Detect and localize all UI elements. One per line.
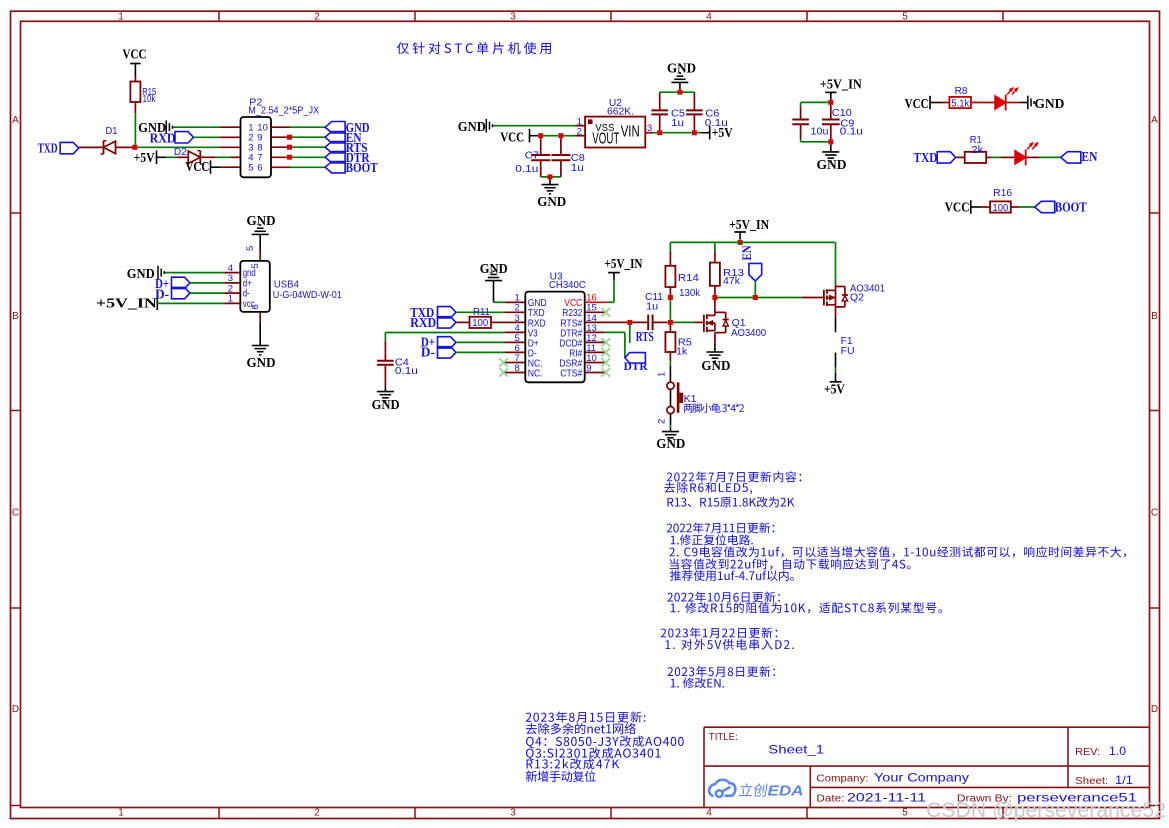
svg-text:C7: C7 [525, 151, 539, 162]
wire +5V to D2 [157, 156, 166, 158]
svg-text:GND: GND [127, 267, 155, 282]
no-connect x U3 pin7 [505, 362, 525, 364]
svg-text:A: A [1151, 115, 1158, 126]
power flag +5V right of C6 [709, 126, 711, 139]
svg-text:+5V_IN: +5V_IN [605, 257, 643, 272]
svg-text:R8: R8 [955, 86, 968, 97]
P2 right pins [271, 126, 290, 128]
svg-text:C: C [1151, 508, 1158, 519]
svg-text:REV:: REV: [1075, 747, 1100, 758]
svg-text:0.1u: 0.1u [395, 366, 418, 377]
junction C5/C6 top ground [677, 90, 682, 95]
port BOOT flag right [1035, 201, 1055, 212]
note text 仅针对STC单片机使用 [397, 42, 551, 54]
svg-text:Sheet_1: Sheet_1 [768, 743, 824, 757]
junction C9 bottom [828, 139, 833, 144]
wire GND to USB4 pin5 [259, 234, 261, 251]
svg-text:1u: 1u [646, 301, 658, 312]
svg-text:TXD: TXD [914, 151, 938, 166]
wire K1 pin2 to ground [670, 414, 672, 425]
wire C7-C8 bottoms [541, 176, 561, 178]
wire D1 to junction [116, 146, 133, 148]
junction C11/R5/Q1 node [668, 320, 673, 325]
title block frame [704, 726, 1150, 728]
transistor Q2 AO3401 PMOS [835, 242, 837, 284]
svg-text:K1: K1 [684, 394, 697, 405]
resistor R8 [949, 97, 971, 108]
svg-text:VOUT: VOUT [592, 130, 619, 147]
svg-text:D1: D1 [106, 126, 118, 137]
svg-text:CSDN @perseverance52: CSDN @perseverance52 [926, 799, 1166, 822]
svg-text:1: 1 [118, 11, 124, 22]
svg-text:Company:: Company: [816, 773, 868, 784]
no-connect x U3 pin8 [505, 372, 525, 374]
svg-text:2: 2 [314, 11, 320, 22]
svg-text:GND: GND [247, 356, 276, 371]
svg-text:AO3400: AO3400 [731, 328, 766, 339]
junction C7/C8 ground [548, 174, 553, 179]
svg-text:1/1: 1/1 [1115, 773, 1133, 787]
wire D+ to pin3 [190, 282, 224, 284]
revision note 2023-5-8 [668, 666, 776, 677]
svg-text:Date:: Date: [816, 794, 844, 805]
wire USB4 pin6 to ground [259, 312, 261, 322]
svg-text:B: B [12, 311, 19, 322]
svg-text:VCC: VCC [123, 48, 147, 63]
svg-text:+5V_IN: +5V_IN [820, 78, 862, 93]
svg-text:EN: EN [1081, 150, 1097, 165]
wire junction to P2 pin3 [137, 146, 220, 148]
junction C5 bottom [657, 130, 662, 135]
junction C7 top [538, 133, 543, 138]
svg-text:CH340C: CH340C [549, 280, 586, 291]
wire GND to U3 pin1 [493, 281, 495, 303]
wire VCC to U2 pin2 [530, 135, 539, 137]
svg-text:Your Company: Your Company [874, 770, 969, 784]
wire R8 to LED1 [971, 102, 995, 104]
svg-text:D: D [12, 704, 19, 715]
capacitor C11 [632, 321, 648, 323]
wire Q1 source to ground [714, 333, 716, 343]
capacitor C10 [800, 107, 802, 120]
svg-text:0.1u: 0.1u [840, 127, 863, 138]
wire RXD to R11 [456, 321, 470, 323]
svg-text:1u: 1u [571, 163, 584, 174]
svg-text:6: 6 [257, 163, 262, 174]
capacitor C6 [693, 114, 695, 130]
svg-text:2: 2 [577, 127, 582, 138]
wire R5 to K1 [669, 352, 671, 361]
resistor R1 [965, 152, 987, 163]
svg-text:C10: C10 [832, 108, 852, 119]
svg-text:4: 4 [706, 808, 712, 819]
wire D2 to P2 pin4 [200, 156, 215, 158]
capacitor C5 [659, 114, 661, 130]
svg-text:5: 5 [902, 808, 908, 819]
wire gate rail to Q2 [717, 297, 802, 299]
svg-text:VIN: VIN [621, 123, 640, 140]
power flag +5V below F1 [830, 381, 842, 383]
capacitor C7 [540, 138, 542, 155]
wire to C10 top [801, 101, 829, 103]
svg-text:100: 100 [472, 318, 488, 329]
svg-text:1: 1 [118, 808, 124, 819]
port BOOT flag (P2 pin6) [325, 162, 345, 173]
svg-text:GND: GND [458, 120, 486, 135]
svg-text:DTR: DTR [624, 361, 649, 373]
wire TXD to U3 pin2 [456, 311, 505, 313]
svg-text:Sheet:: Sheet: [1075, 776, 1108, 787]
svg-text:M_2.54_2*5P_JX: M_2.54_2*5P_JX [248, 106, 319, 117]
junction C9 top [828, 100, 833, 105]
junction P2 pin8 [287, 145, 292, 150]
svg-text:R14: R14 [678, 273, 699, 284]
wire TXD to D1 [79, 146, 104, 148]
svg-text:TITLE:: TITLE: [709, 732, 738, 743]
wire R15 bottom to junction [134, 102, 136, 113]
port DTR flag at U3 [625, 353, 646, 363]
resistor R5 [669, 325, 671, 332]
svg-text:130k: 130k [679, 288, 701, 299]
wire VCC to R16 [971, 206, 981, 208]
svg-text:100: 100 [992, 203, 1008, 214]
wire VCC to P2 pin5 [211, 166, 221, 168]
svg-text:USB4: USB4 [274, 279, 299, 290]
capacitor C8 [560, 138, 562, 155]
svg-text:NC.: NC. [528, 368, 543, 379]
net flag RTS stub [629, 325, 631, 343]
svg-text:B: B [1151, 311, 1158, 322]
junction node TXD/R15/P2 [132, 145, 137, 150]
wire GND to U2 pin1 [493, 125, 575, 127]
port EN flag (P2 pin9) [325, 132, 345, 143]
junction EN node [753, 295, 758, 300]
ground below K1 [662, 431, 679, 433]
wire +5V_IN rail [670, 241, 835, 243]
wire GND to pin4 [165, 272, 225, 274]
junction R13/Q1 drain [712, 295, 717, 300]
switch K1 两脚小龟 [667, 382, 674, 389]
junction RTS node [627, 320, 632, 325]
wire U3 pin13 DTR# to DTR flag [604, 331, 625, 333]
ground below Q1 [706, 351, 723, 353]
wire R1 to LED2 [986, 156, 991, 158]
fuse F1 [835, 308, 837, 317]
svg-text:10k: 10k [143, 94, 157, 105]
resistor R11 [470, 317, 492, 328]
svg-text:GND: GND [667, 62, 696, 77]
svg-text:BOOT: BOOT [346, 161, 379, 176]
wire +5V_IN to pin1 [157, 302, 224, 304]
wire EN to gate rail [754, 281, 756, 295]
U3 left pin stubs [505, 301, 525, 303]
svg-text:D-: D- [421, 346, 435, 361]
svg-text:2: 2 [657, 419, 668, 424]
svg-text:D2: D2 [174, 147, 187, 158]
wire R16 to BOOT [1011, 206, 1019, 208]
svg-text:BOOT: BOOT [1055, 201, 1088, 216]
svg-text:U-G-04WD-W-01: U-G-04WD-W-01 [273, 290, 342, 301]
svg-text:CTS#: CTS# [560, 368, 582, 379]
wire rail to R14 [669, 242, 671, 251]
revision note 2022-7-11 [667, 522, 775, 533]
port GND flag (P2 pin10) [325, 122, 345, 133]
resistor R14 [665, 266, 675, 287]
svg-text:GND: GND [701, 359, 730, 374]
revision note 2022-10-6 [667, 592, 780, 603]
wire R15 top pin [134, 77, 136, 82]
wire V3 net to C4 [385, 332, 505, 334]
svg-text:VCC: VCC [185, 160, 209, 175]
svg-text:1u: 1u [671, 118, 684, 129]
capacitor C4 [384, 342, 386, 361]
svg-text:10u: 10u [811, 127, 829, 138]
port EN flag (down) [749, 263, 762, 281]
svg-text:5.1k: 5.1k [951, 98, 970, 109]
svg-text:VCC: VCC [500, 130, 524, 145]
svg-text:6: 6 [250, 304, 261, 309]
svg-text:1: 1 [657, 372, 668, 377]
svg-text:5: 5 [248, 163, 253, 174]
wire to Q1 gate [673, 321, 695, 323]
connector USB4 U-G-04WD-W-01 [240, 261, 269, 312]
revision note 2022-7-7 [667, 471, 802, 482]
no-connect x U3 pins 15 12 11 10 9 [602, 308, 611, 317]
junction +5V_IN rail [738, 240, 743, 245]
svg-text:2: 2 [314, 808, 320, 819]
frame zone ticks [218, 11, 220, 21]
port RTS flag (P2 pin8) [325, 142, 345, 153]
wire RXD to P2 pin2 [194, 136, 221, 138]
svg-text:VCC: VCC [905, 97, 929, 112]
ground above C5/C6 [679, 82, 681, 89]
ground below C7/C8 [549, 179, 551, 184]
wire D- to pin2 [190, 292, 224, 294]
svg-text:5: 5 [250, 263, 261, 268]
svg-text:+5V: +5V [134, 151, 155, 166]
junction below R14 [668, 295, 673, 300]
port DTR flag (P2 pin7) [325, 152, 345, 163]
diode D1 [104, 141, 116, 153]
svg-text:2021-11-11: 2021-11-11 [847, 791, 926, 805]
svg-text:+5V: +5V [824, 383, 845, 398]
junction P2 pin9 [287, 135, 292, 140]
svg-text:RXD: RXD [410, 316, 436, 331]
LED D3 power [995, 96, 1006, 109]
svg-text:GND: GND [656, 437, 685, 452]
LED D4 TXD [1015, 151, 1026, 164]
svg-text:+5V_IN: +5V_IN [729, 218, 769, 233]
junction C8 top [558, 133, 563, 138]
wire TXD to R1 [956, 156, 965, 158]
svg-text:2k: 2k [971, 145, 984, 156]
svg-text:+5V_IN: +5V_IN [96, 297, 157, 312]
svg-text:5: 5 [902, 11, 908, 22]
wire LED2 to EN [1026, 156, 1039, 158]
svg-text:EDA: EDA [768, 783, 804, 800]
svg-text:0.1u: 0.1u [515, 164, 538, 175]
svg-text:R11: R11 [473, 307, 490, 318]
svg-text:GND: GND [372, 398, 400, 413]
resistor R16 [990, 201, 1011, 212]
ground below C9 [830, 144, 832, 152]
svg-text:Q2: Q2 [850, 293, 864, 304]
svg-text:EN: EN [739, 245, 754, 261]
U3 right pin stubs [585, 311, 605, 313]
revision note 2023-8-15 [526, 711, 646, 722]
svg-text:GND: GND [1034, 97, 1064, 112]
svg-text:VCC: VCC [945, 200, 970, 215]
svg-text:662K.: 662K. [607, 106, 634, 117]
wire U3 pin16 VCC to +5V_IN [585, 301, 607, 303]
svg-text:1.0: 1.0 [1109, 744, 1126, 758]
wire D+ to U3 pin5 [456, 341, 505, 343]
wire R11 to U3 pin3 [491, 321, 505, 323]
svg-text:GND: GND [247, 214, 276, 229]
port EN flag right [1061, 152, 1081, 163]
wire rail to R13 [714, 242, 716, 251]
logo 立创EDA [709, 780, 735, 797]
wire C10 bottom [800, 139, 802, 142]
wire U3 pin14 RTS# to junction [604, 321, 627, 323]
svg-text:C: C [12, 508, 19, 519]
ground below C4 [384, 386, 386, 392]
svg-text:0.1u: 0.1u [705, 118, 728, 129]
svg-text:GND: GND [817, 158, 847, 173]
svg-text:47k: 47k [723, 276, 741, 287]
capacitor C9 [830, 105, 832, 120]
junction P2 pin7 [287, 155, 292, 160]
ground below USB4 [252, 345, 269, 347]
svg-text:4: 4 [706, 11, 712, 22]
wire LED1 to GND [1006, 102, 1020, 104]
svg-text:RXD: RXD [150, 132, 176, 147]
svg-text:A: A [12, 115, 19, 126]
svg-text:GND: GND [537, 195, 566, 210]
junction C6 bottom [692, 130, 697, 135]
wire U2 pin3 to +5V [645, 132, 653, 134]
resistor R15 [130, 82, 140, 103]
svg-text:3: 3 [510, 11, 516, 22]
wire R13 bottom [714, 286, 716, 295]
svg-text:RTS: RTS [636, 330, 654, 345]
net label GND right of LED1 [1027, 96, 1029, 110]
wire VCC to R8 [930, 102, 941, 104]
svg-text:D: D [1151, 704, 1158, 715]
svg-text:1k: 1k [676, 347, 688, 358]
wire GND to P2 pin1 [173, 126, 220, 128]
wire D- to U3 pin6 [456, 351, 505, 353]
svg-text:3: 3 [510, 808, 516, 819]
revision note 2023-1-22 [661, 627, 778, 638]
diode D2 [188, 151, 200, 163]
wire C5-C6 tops [660, 91, 695, 93]
svg-text:TXD: TXD [38, 141, 58, 156]
resistor R13 [710, 263, 720, 286]
wire R14 bottom [669, 287, 671, 295]
svg-text:5: 5 [245, 246, 256, 251]
svg-text:FU: FU [841, 346, 855, 357]
transistor Q1 AO3400 NMOS [714, 300, 716, 312]
svg-text:R16: R16 [993, 188, 1012, 199]
